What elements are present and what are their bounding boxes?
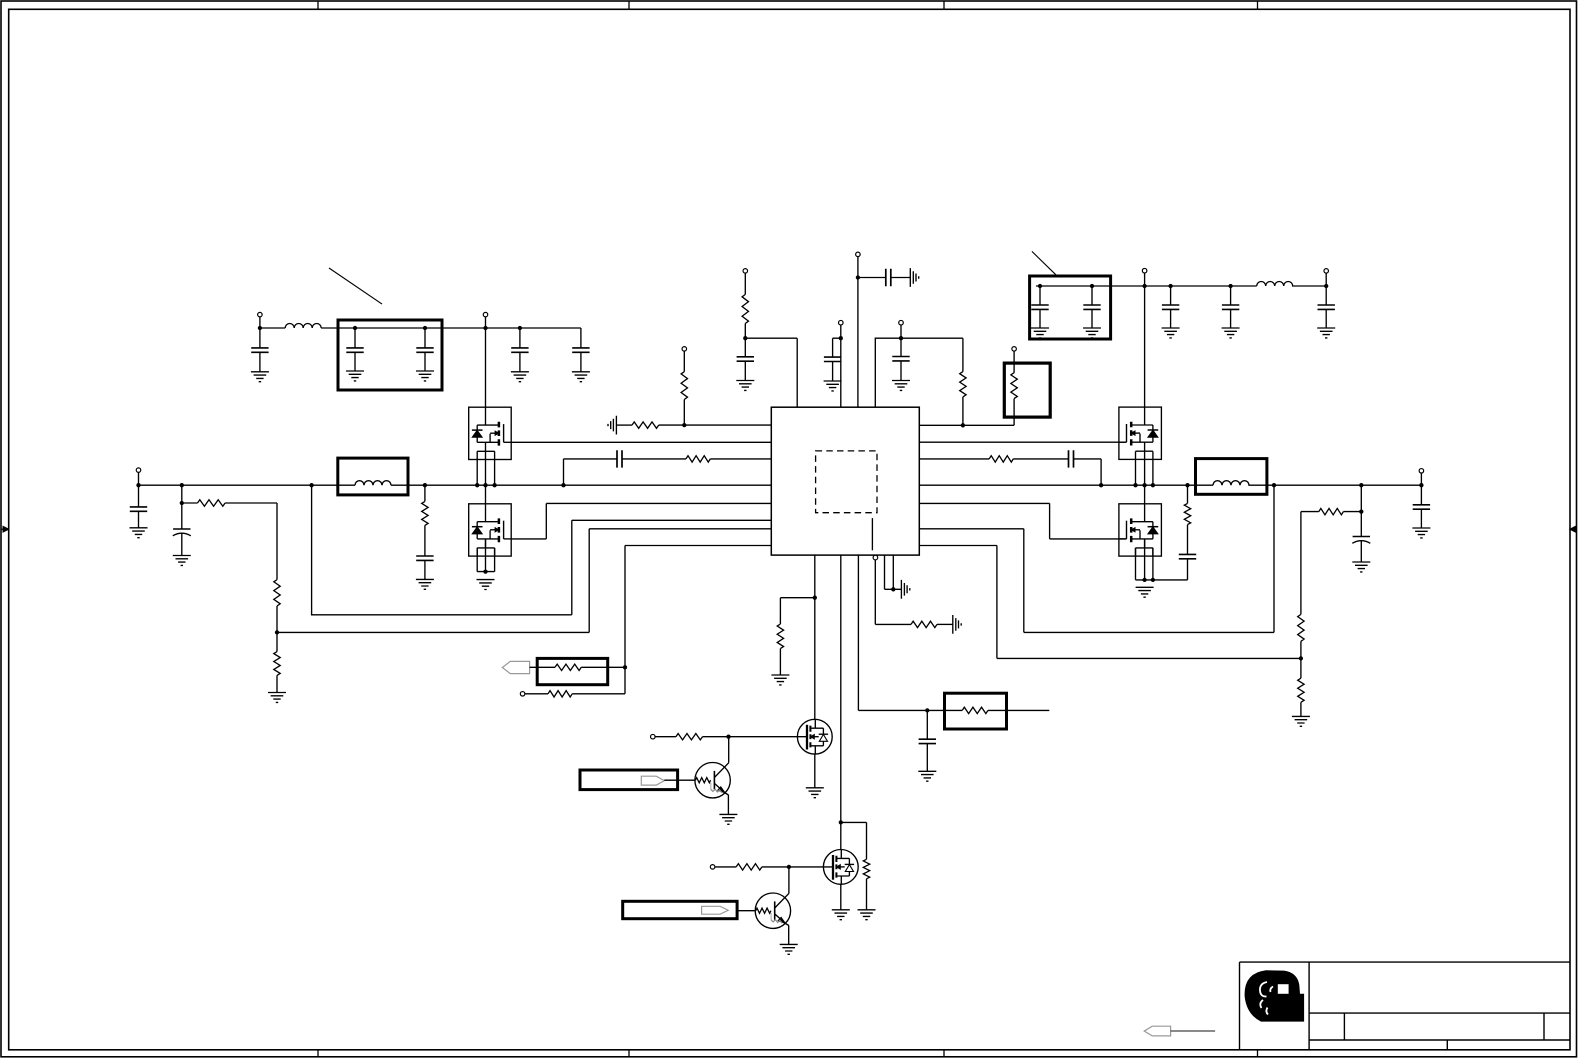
wire Q4 source sense	[1136, 539, 1153, 580]
terminal gate drive 1	[651, 734, 656, 739]
resistor R17	[548, 691, 572, 697]
resistor R14	[1298, 614, 1304, 641]
wire	[779, 649, 781, 675]
resistor R23	[736, 864, 762, 870]
border center arrow right	[1574, 528, 1577, 530]
ground	[416, 579, 434, 589]
ground	[780, 944, 798, 954]
terminal ADJ	[520, 692, 525, 697]
junction	[1299, 656, 1303, 660]
capacitor C1	[259, 328, 261, 348]
wire	[1301, 512, 1361, 615]
MOSFET Q1 high-side left	[469, 407, 512, 459]
junction	[483, 569, 487, 573]
wire pulldown branch	[780, 598, 814, 624]
ground	[1162, 328, 1180, 338]
resistor R10	[686, 456, 710, 462]
wire	[703, 736, 807, 738]
resistor R7	[274, 580, 280, 606]
junction	[423, 483, 427, 487]
junction	[275, 630, 279, 634]
wire pin T4 net	[875, 338, 963, 407]
net flag arrow	[502, 661, 529, 673]
ground	[251, 372, 269, 382]
ground	[1136, 587, 1154, 597]
terminal BST	[899, 320, 904, 325]
junction	[180, 501, 184, 505]
resistor R21	[911, 621, 937, 627]
flag module FB2 box	[623, 901, 737, 918]
chassis ground	[901, 580, 909, 599]
wire pin bottom2	[840, 555, 842, 849]
terminal VBAT left	[136, 468, 141, 473]
border zone ticks bottom	[318, 1050, 1258, 1057]
junction	[925, 708, 929, 712]
ground	[771, 675, 789, 685]
junction	[483, 483, 487, 487]
capacitor C10	[1318, 305, 1335, 309]
junction	[682, 423, 686, 427]
resistor R3	[742, 294, 748, 323]
wire	[581, 666, 625, 668]
small MOSFET Q5	[797, 719, 832, 754]
junction	[561, 483, 565, 487]
wire pin bottom1	[814, 555, 816, 719]
transistor Q8 digital	[755, 893, 790, 928]
wire	[1325, 273, 1327, 305]
ground	[824, 381, 842, 391]
terminal node VOUT2	[1142, 268, 1147, 273]
capacitor C16 polarized	[173, 528, 190, 530]
junction	[787, 865, 791, 869]
capacitor C20	[1179, 554, 1196, 558]
wire	[1300, 641, 1302, 678]
ground	[572, 372, 590, 382]
capacitor C14	[892, 357, 909, 361]
ground	[1031, 328, 1049, 338]
resistor module RM2 box	[537, 658, 608, 684]
resistor R11	[989, 456, 1013, 462]
wire pin A1	[659, 424, 772, 426]
wire Q3 source to bus	[1136, 451, 1153, 485]
junction	[856, 275, 860, 279]
junction	[353, 326, 357, 330]
junction	[1324, 284, 1328, 288]
ground	[346, 371, 364, 381]
junction	[1142, 483, 1146, 487]
wire	[1300, 702, 1302, 716]
RC branch right	[919, 459, 1101, 485]
junction	[258, 326, 262, 330]
capacitor C21 polarized	[1353, 536, 1370, 538]
wire feedback loop right	[919, 546, 1301, 659]
ground	[1317, 328, 1335, 338]
border zone ticks top	[318, 1, 1258, 9]
wire pin B1 right	[919, 424, 1014, 426]
wire cap branch	[833, 338, 841, 357]
logo mark	[1245, 970, 1305, 1021]
junction	[1142, 284, 1146, 288]
IC U1 pad pin circle	[873, 555, 878, 560]
MOSFET Q4 low-side right	[1119, 504, 1162, 556]
junction	[1272, 483, 1276, 487]
capacitor C15	[130, 507, 147, 511]
chassis ground	[910, 268, 918, 287]
resistor R19	[863, 859, 869, 879]
inductor module LM1 box	[338, 458, 408, 495]
junction	[423, 326, 427, 330]
wire	[1036, 285, 1326, 287]
wire	[260, 317, 581, 328]
resistor R6	[198, 500, 226, 506]
ground	[268, 693, 286, 703]
ground	[1222, 328, 1240, 338]
wire	[683, 351, 685, 425]
border center arrow left	[1, 528, 4, 530]
wire	[572, 693, 625, 695]
wire	[655, 736, 676, 738]
wire bus left	[138, 473, 140, 507]
resistor R5	[1011, 373, 1017, 399]
wire	[1171, 1030, 1216, 1032]
ground	[1412, 528, 1430, 538]
junction	[1090, 284, 1094, 288]
flag module FB1 box	[580, 770, 678, 790]
wire to pin T1	[745, 338, 797, 407]
terminal node VIN	[483, 312, 488, 317]
wire Q7 emitter to ground	[727, 795, 729, 815]
chassis ground	[608, 416, 616, 435]
ground	[892, 381, 910, 391]
junction	[726, 735, 730, 739]
capacitor C18	[617, 450, 622, 467]
wire pin T2	[840, 325, 842, 407]
ground	[416, 371, 434, 381]
ground	[173, 556, 191, 566]
wire Q8 emitter to ground	[788, 925, 790, 944]
terminal RT	[1012, 347, 1017, 352]
capacitor C17	[416, 556, 433, 560]
wire	[1013, 351, 1015, 425]
junction	[475, 483, 479, 487]
small MOSFET Q6	[823, 850, 858, 885]
inductor L3	[355, 481, 391, 486]
wire gate low-side left	[511, 503, 771, 539]
wire pins bottom5-6	[885, 555, 902, 589]
wire gate high-side left	[511, 441, 771, 443]
flag arrow	[641, 776, 664, 785]
resistor R4	[960, 372, 966, 397]
resistor module RM1 box	[1004, 363, 1050, 417]
wire feedback loop left	[277, 529, 771, 633]
wire	[737, 910, 755, 912]
terminal EN	[682, 347, 687, 352]
terminal VOUT right	[1419, 469, 1424, 474]
wire	[276, 606, 278, 652]
wire Q1 source to bus	[477, 451, 494, 485]
terminal VDD	[856, 252, 861, 257]
wire gate high-side right	[919, 441, 1126, 443]
transistor Q7 digital	[695, 763, 730, 798]
title block outline	[1240, 962, 1571, 1050]
ground	[736, 381, 754, 391]
capacitor C11	[737, 357, 754, 361]
wire bus to Q2 drain	[485, 485, 487, 504]
wire ISET net	[625, 546, 771, 694]
filter module FL1 box	[338, 320, 442, 390]
wire pin bottom4	[875, 560, 911, 625]
wire	[858, 277, 910, 279]
junction	[518, 326, 522, 330]
IC U1 body	[771, 407, 919, 555]
ground	[477, 580, 495, 590]
wire pin T3	[857, 257, 859, 407]
chassis ground	[953, 615, 961, 634]
terminal VCC1	[743, 269, 748, 274]
title block arrow flag	[1144, 1026, 1170, 1036]
junction	[623, 665, 627, 669]
junction	[492, 483, 496, 487]
resistor R8	[274, 652, 280, 676]
capacitor C12	[824, 357, 841, 361]
ground	[1352, 562, 1370, 572]
wire	[900, 325, 902, 356]
junction	[1168, 284, 1172, 288]
wire	[1144, 273, 1146, 407]
ground	[858, 910, 876, 920]
wire	[937, 623, 953, 625]
inductor module LM2 box	[1196, 459, 1267, 495]
wire gate low-side right	[919, 503, 1126, 539]
junction	[891, 587, 895, 591]
wire	[616, 424, 632, 426]
junction	[1151, 578, 1155, 582]
junction	[961, 423, 965, 427]
annotation line top-left	[329, 268, 382, 304]
resistor R15	[1298, 678, 1304, 702]
wire	[866, 879, 868, 910]
resistor R18	[777, 624, 783, 649]
resistor R1	[681, 372, 687, 400]
inductor L4	[1213, 481, 1249, 486]
ground	[1083, 328, 1101, 338]
wire Q2 source sense	[477, 539, 494, 572]
IC U1 inner pin line	[871, 518, 873, 550]
wire	[988, 709, 1049, 711]
wire	[744, 273, 746, 357]
junction	[1038, 284, 1042, 288]
wire Q7 collector	[728, 737, 730, 763]
wire	[715, 866, 736, 868]
ground	[806, 788, 824, 798]
annotation line top-right	[1032, 251, 1056, 274]
wire current sense loop left	[312, 485, 772, 615]
wire Q5 source to ground	[814, 754, 816, 788]
junction	[1151, 483, 1155, 487]
filter module FL2 box	[1030, 276, 1111, 339]
ground	[511, 372, 529, 382]
junction	[839, 336, 843, 340]
wire pin bottom3	[858, 555, 927, 710]
junction	[1359, 483, 1363, 487]
connector J1 terminal	[258, 312, 263, 317]
capacitor C13	[886, 269, 891, 286]
resistor R22	[676, 734, 703, 740]
terminal gate drive 2	[710, 865, 715, 870]
terminal VCC2	[839, 320, 844, 325]
RC branch left	[564, 459, 772, 485]
connector J2 terminal	[1324, 269, 1329, 274]
wire bus to Q4 drain	[1144, 485, 1146, 504]
wire R chain	[182, 503, 277, 580]
capacitor C23	[926, 710, 928, 739]
junction	[899, 336, 903, 340]
wire	[664, 779, 695, 781]
wire	[962, 338, 964, 425]
capacitor C19	[1069, 450, 1074, 467]
resistor module RM3 box	[945, 693, 1007, 729]
capacitor C5	[580, 328, 582, 348]
wire Q6 source to ground	[840, 884, 842, 910]
junction	[839, 820, 843, 824]
resistor R20	[962, 707, 988, 713]
resistor R12	[1184, 503, 1190, 524]
wire current sense loop right	[919, 485, 1274, 632]
resistor R13	[1319, 508, 1344, 514]
wire	[530, 666, 555, 668]
junction	[1359, 509, 1363, 513]
wire	[276, 675, 278, 692]
junction	[1185, 483, 1189, 487]
wire bus right	[919, 484, 1421, 486]
inductor L1	[285, 324, 321, 328]
wire	[927, 709, 962, 711]
wire	[762, 866, 833, 868]
junction	[483, 326, 487, 330]
junction	[136, 483, 140, 487]
IC U1 thermal pad dashed	[816, 451, 877, 513]
junction	[1099, 483, 1103, 487]
junction	[1133, 483, 1137, 487]
ground	[130, 528, 148, 538]
wire divider chain	[181, 485, 183, 529]
ground	[832, 910, 850, 920]
junction	[1419, 483, 1423, 487]
MOSFET Q2 low-side left	[469, 504, 512, 556]
resistor R2	[632, 422, 659, 428]
snubber chain left	[424, 485, 426, 556]
ground	[719, 814, 737, 824]
wire branch to R	[841, 822, 867, 859]
junction	[743, 336, 747, 340]
ground	[1292, 716, 1310, 726]
resistor R9	[422, 501, 428, 525]
junction	[309, 483, 313, 487]
junction	[1228, 284, 1232, 288]
ground	[918, 771, 936, 781]
wire	[525, 693, 548, 695]
wire Q8 collector	[788, 867, 790, 893]
flag arrow	[702, 906, 729, 914]
MOSFET Q3 high-side right	[1119, 407, 1162, 459]
wire	[485, 317, 487, 407]
capacitor C22	[1413, 505, 1430, 509]
resistor R16	[555, 664, 581, 670]
inductor L2	[1257, 282, 1293, 287]
junction	[180, 483, 184, 487]
junction	[813, 596, 817, 600]
junction	[1142, 578, 1146, 582]
